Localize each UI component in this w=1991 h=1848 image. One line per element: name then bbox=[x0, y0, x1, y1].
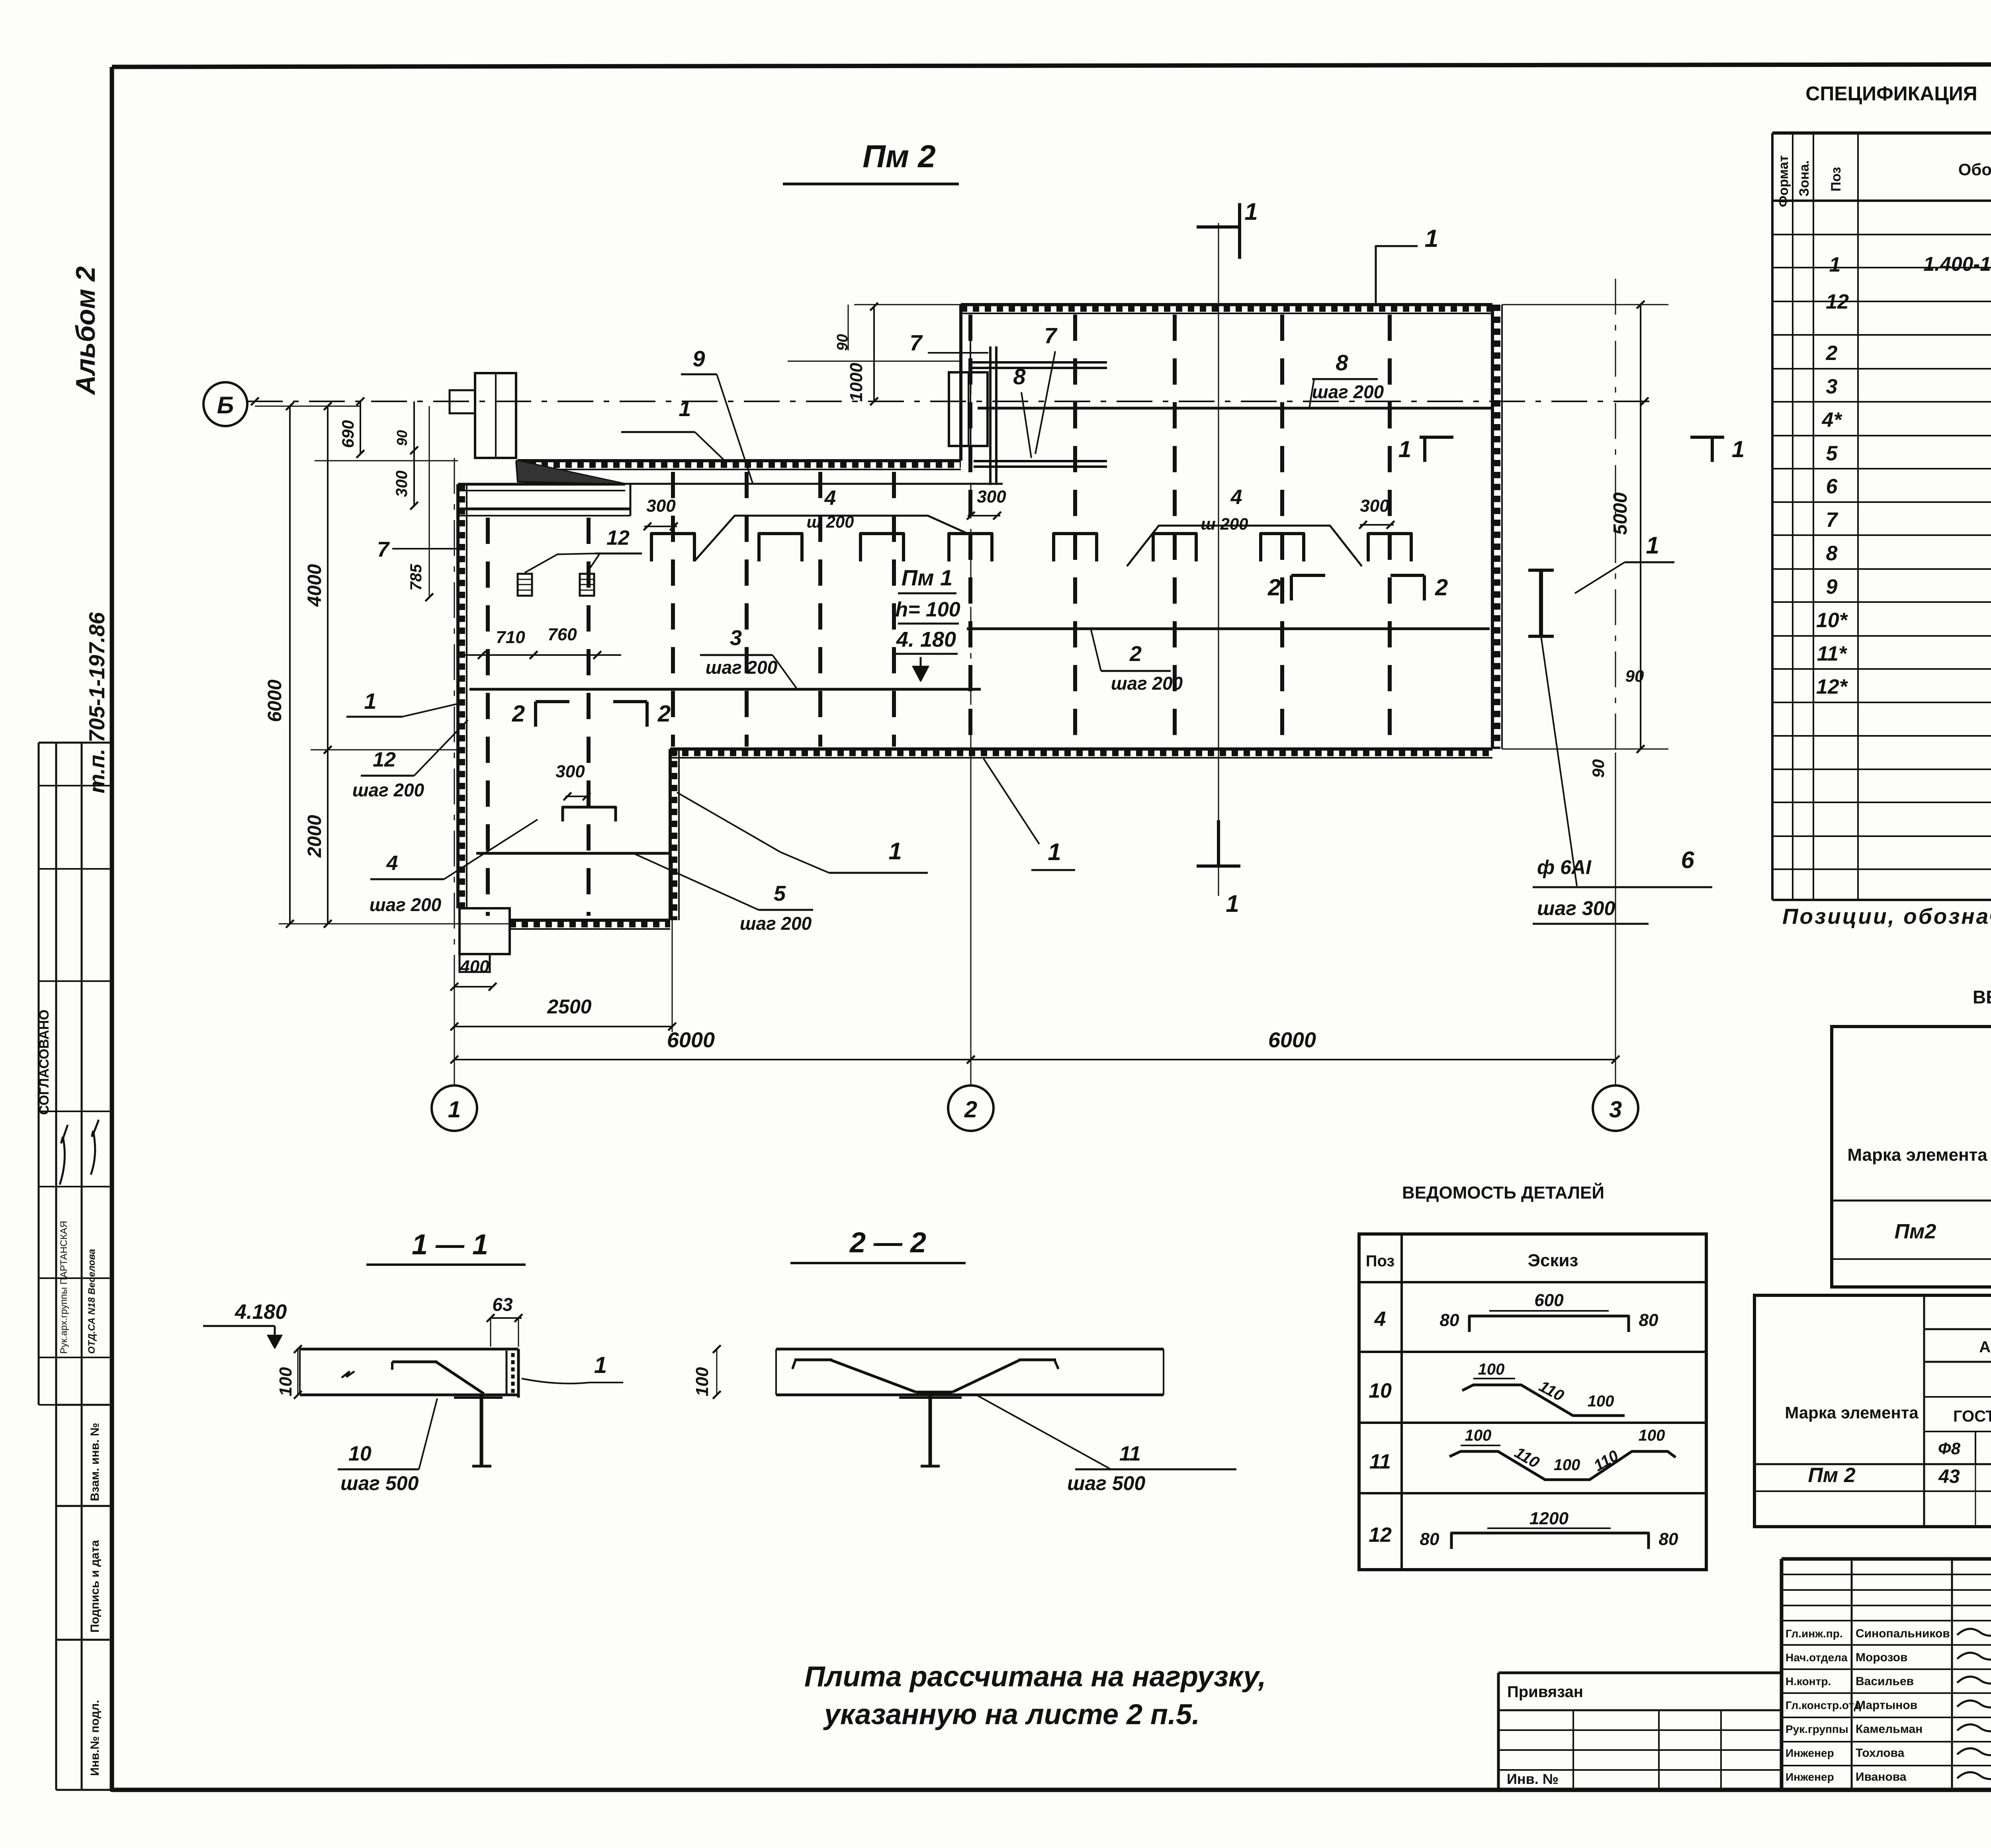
svg-text:Позиции, обозначенные знаком*,: Позиции, обозначенные знаком*, см. ведом… bbox=[1782, 904, 1991, 929]
svg-text:6000: 6000 bbox=[1268, 1028, 1316, 1052]
svg-text:2000: 2000 bbox=[304, 815, 325, 858]
svg-text:63: 63 bbox=[492, 1294, 513, 1315]
svg-text:Камельман: Камельман bbox=[1856, 1723, 1923, 1736]
svg-text:h= 100: h= 100 bbox=[895, 598, 960, 621]
svg-text:Гл.констр.отд: Гл.констр.отд bbox=[1786, 1699, 1861, 1711]
svg-text:1 — 1: 1 — 1 bbox=[412, 1229, 488, 1261]
svg-text:Инженер: Инженер bbox=[1786, 1747, 1834, 1759]
svg-text:6000: 6000 bbox=[667, 1028, 715, 1052]
svg-text:Нач.отдела: Нач.отдела bbox=[1786, 1651, 1848, 1664]
svg-text:4: 4 bbox=[1374, 1308, 1386, 1331]
svg-text:100: 100 bbox=[1465, 1427, 1492, 1444]
svg-text:10: 10 bbox=[348, 1442, 372, 1465]
svg-text:ф 6АI: ф 6АI bbox=[1537, 856, 1592, 878]
svg-text:600: 600 bbox=[1534, 1291, 1564, 1310]
svg-text:1: 1 bbox=[364, 688, 376, 714]
svg-text:90: 90 bbox=[1625, 667, 1644, 685]
svg-text:90: 90 bbox=[1589, 759, 1608, 778]
svg-text:шаг 200: шаг 200 bbox=[740, 913, 812, 934]
svg-text:Пм2: Пм2 bbox=[1895, 1220, 1936, 1243]
svg-text:10*: 10* bbox=[1816, 609, 1848, 632]
svg-text:ш 200: ш 200 bbox=[806, 512, 854, 531]
svg-text:12: 12 bbox=[1369, 1523, 1392, 1547]
svg-text:1200: 1200 bbox=[1529, 1509, 1569, 1528]
svg-text:Поз: Поз bbox=[1829, 167, 1844, 192]
svg-text:шаг 300: шаг 300 bbox=[1537, 897, 1615, 919]
svg-text:СПЕЦИФИКАЦИЯ: СПЕЦИФИКАЦИЯ bbox=[1805, 82, 1977, 105]
svg-text:Пм 2: Пм 2 bbox=[863, 139, 935, 174]
svg-text:шаг 500: шаг 500 bbox=[1067, 1472, 1145, 1494]
svg-text:1: 1 bbox=[1829, 253, 1841, 276]
svg-text:6: 6 bbox=[1826, 475, 1838, 498]
svg-text:1: 1 bbox=[594, 1352, 607, 1378]
svg-text:ОТД.СА N18 Веселова: ОТД.СА N18 Веселова bbox=[86, 1249, 97, 1354]
svg-text:Синопальников: Синопальников bbox=[1856, 1627, 1950, 1640]
svg-text:Рук.группы: Рук.группы bbox=[1786, 1723, 1848, 1735]
svg-text:300: 300 bbox=[555, 762, 585, 781]
svg-text:Пм 1: Пм 1 bbox=[902, 565, 952, 590]
svg-text:1: 1 bbox=[1226, 890, 1239, 917]
svg-text:80: 80 bbox=[1420, 1529, 1439, 1549]
svg-text:300: 300 bbox=[1360, 496, 1389, 516]
svg-text:100: 100 bbox=[1554, 1456, 1580, 1474]
svg-text:8: 8 bbox=[1013, 364, 1026, 389]
svg-text:43: 43 bbox=[1938, 1466, 1960, 1487]
svg-text:7: 7 bbox=[377, 538, 390, 561]
svg-text:шаг 200: шаг 200 bbox=[370, 894, 442, 915]
svg-text:9: 9 bbox=[1826, 575, 1838, 598]
svg-text:1: 1 bbox=[1244, 198, 1258, 225]
svg-text:Инв. №: Инв. № bbox=[1507, 1771, 1559, 1787]
svg-text:2: 2 bbox=[1129, 642, 1142, 666]
svg-text:1: 1 bbox=[448, 1097, 461, 1122]
svg-text:300: 300 bbox=[393, 471, 411, 497]
svg-text:СОГЛАСОВАНО: СОГЛАСОВАНО bbox=[37, 1009, 52, 1115]
svg-text:4: 4 bbox=[824, 487, 836, 510]
svg-text:Гл.инж.пр.: Гл.инж.пр. bbox=[1786, 1627, 1843, 1640]
svg-text:Мартынов: Мартынов bbox=[1856, 1699, 1917, 1712]
svg-text:11*: 11* bbox=[1817, 642, 1848, 665]
svg-text:ВЕДОМОСТЬ РАСХОДА СТАЛИ НА: ВЕДОМОСТЬ РАСХОДА СТАЛИ НА ЭЛЕМЕНТ, кг bbox=[1973, 987, 1991, 1007]
svg-text:2: 2 bbox=[512, 701, 525, 727]
svg-text:2: 2 bbox=[1826, 342, 1838, 365]
svg-text:2: 2 bbox=[1435, 575, 1448, 600]
svg-text:1: 1 bbox=[1732, 436, 1745, 462]
svg-text:4000: 4000 bbox=[304, 564, 325, 607]
svg-text:785: 785 bbox=[407, 564, 425, 591]
svg-text:Марка элемента: Марка элемента bbox=[1785, 1403, 1919, 1422]
svg-text:шаг 200: шаг 200 bbox=[1312, 381, 1384, 402]
svg-text:3: 3 bbox=[1609, 1097, 1622, 1122]
svg-text:Зона.: Зона. bbox=[1797, 160, 1812, 197]
svg-text:Формат: Формат bbox=[1776, 155, 1791, 207]
svg-text:Подпись и дата: Подпись и дата bbox=[88, 1540, 102, 1633]
svg-text:Иванова: Иванова bbox=[1856, 1770, 1907, 1783]
svg-text:100: 100 bbox=[1588, 1392, 1614, 1410]
svg-text:1: 1 bbox=[679, 396, 691, 421]
svg-text:Б: Б bbox=[217, 392, 234, 418]
svg-text:Плита рассчитана на нагрузк: Плита рассчитана на нагрузку, bbox=[804, 1661, 1266, 1693]
svg-text:400: 400 bbox=[460, 957, 489, 976]
svg-text:690: 690 bbox=[338, 420, 357, 448]
svg-text:1: 1 bbox=[1425, 225, 1438, 252]
svg-text:Рук.арх.группы ПАРТАНСКАЯ: Рук.арх.группы ПАРТАНСКАЯ bbox=[59, 1221, 69, 1354]
svg-text:Н.контр.: Н.контр. bbox=[1786, 1675, 1831, 1688]
svg-text:Васильев: Васильев bbox=[1856, 1675, 1914, 1688]
svg-text:7: 7 bbox=[909, 330, 923, 355]
svg-text:6: 6 bbox=[1681, 847, 1694, 873]
svg-text:1000: 1000 bbox=[847, 363, 866, 402]
svg-text:шаг 200: шаг 200 bbox=[706, 657, 778, 678]
svg-text:80: 80 bbox=[1659, 1529, 1678, 1549]
svg-text:т.п. 705-1-197.86: т.п. 705-1-197.86 bbox=[84, 612, 109, 793]
svg-text:Морозов: Морозов bbox=[1856, 1651, 1908, 1664]
svg-text:80: 80 bbox=[1440, 1310, 1459, 1330]
svg-text:12*: 12* bbox=[1816, 675, 1848, 698]
svg-text:3: 3 bbox=[1826, 375, 1838, 398]
svg-text:12: 12 bbox=[373, 748, 396, 771]
svg-text:Привязан: Привязан bbox=[1507, 1683, 1583, 1701]
svg-text:1: 1 bbox=[1646, 532, 1659, 559]
svg-text:1: 1 bbox=[1048, 839, 1061, 865]
svg-text:Тохлова: Тохлова bbox=[1856, 1746, 1905, 1760]
svg-text:11: 11 bbox=[1369, 1450, 1391, 1473]
svg-text:710: 710 bbox=[496, 628, 525, 647]
svg-text:Ф8: Ф8 bbox=[1938, 1439, 1961, 1458]
svg-text:12: 12 bbox=[606, 526, 630, 550]
svg-text:4*: 4* bbox=[1821, 409, 1842, 432]
svg-text:шаг 500: шаг 500 bbox=[340, 1472, 419, 1494]
svg-text:7: 7 bbox=[1044, 323, 1058, 348]
svg-text:Обозначение: Обозначение bbox=[1958, 160, 1991, 179]
svg-text:1: 1 bbox=[888, 838, 902, 864]
svg-text:2: 2 bbox=[1267, 575, 1281, 600]
svg-text:5: 5 bbox=[774, 882, 786, 905]
svg-text:5000: 5000 bbox=[1610, 492, 1631, 535]
svg-text:Поз: Поз bbox=[1366, 1252, 1395, 1270]
svg-text:100: 100 bbox=[1478, 1361, 1505, 1378]
svg-text:5: 5 bbox=[1826, 442, 1838, 465]
svg-text:Эскиз: Эскиз bbox=[1528, 1251, 1578, 1270]
svg-text:1: 1 bbox=[1398, 436, 1411, 462]
svg-text:4. 180: 4. 180 bbox=[896, 628, 956, 651]
svg-text:4: 4 bbox=[1230, 486, 1242, 509]
svg-text:300: 300 bbox=[646, 496, 676, 516]
svg-text:2: 2 bbox=[657, 701, 671, 727]
svg-text:760: 760 bbox=[548, 625, 577, 644]
svg-text:ш 200: ш 200 bbox=[1201, 514, 1248, 533]
svg-text:7: 7 bbox=[1826, 508, 1838, 532]
svg-text:3: 3 bbox=[730, 626, 742, 650]
svg-text:80: 80 bbox=[1639, 1310, 1659, 1330]
svg-text:Инженер: Инженер bbox=[1786, 1771, 1834, 1783]
svg-text:100: 100 bbox=[276, 1367, 295, 1396]
svg-text:9: 9 bbox=[692, 346, 705, 371]
svg-text:11: 11 bbox=[1119, 1442, 1141, 1465]
svg-text:Пм 2: Пм 2 bbox=[1808, 1464, 1855, 1487]
svg-text:100: 100 bbox=[692, 1367, 712, 1396]
svg-text:Взам. инв. №: Взам. инв. № bbox=[88, 1423, 102, 1501]
svg-text:указанную на листе 2 п.5.: указанную на листе 2 п.5. bbox=[823, 1699, 1200, 1731]
svg-text:Арматура класса: Арматура класса bbox=[1979, 1338, 1991, 1356]
svg-text:1.400-15 в.1 530сб: 1.400-15 в.1 530сб bbox=[1923, 253, 1991, 275]
svg-text:6000: 6000 bbox=[264, 679, 286, 722]
svg-text:ГОСТ: ГОСТ bbox=[1953, 1408, 1991, 1425]
svg-text:2 — 2: 2 — 2 bbox=[849, 1227, 926, 1259]
svg-text:шаг 200: шаг 200 bbox=[1111, 673, 1183, 694]
svg-text:4: 4 bbox=[386, 852, 398, 875]
svg-text:шаг 200: шаг 200 bbox=[352, 780, 424, 800]
svg-text:2500: 2500 bbox=[547, 995, 591, 1018]
svg-text:90: 90 bbox=[394, 430, 410, 446]
svg-text:Инв.№ подл.: Инв.№ подл. bbox=[88, 1700, 102, 1776]
svg-text:12: 12 bbox=[1826, 290, 1849, 313]
svg-text:8: 8 bbox=[1336, 350, 1348, 375]
svg-text:ВЕДОМОСТЬ ДЕТАЛЕЙ: ВЕДОМОСТЬ ДЕТАЛЕЙ bbox=[1402, 1182, 1604, 1203]
svg-text:Марка элемента: Марка элемента bbox=[1847, 1145, 1987, 1165]
svg-text:8: 8 bbox=[1826, 542, 1838, 565]
svg-text:4.180: 4.180 bbox=[235, 1300, 287, 1324]
svg-text:2: 2 bbox=[964, 1097, 977, 1122]
svg-text:10: 10 bbox=[1369, 1379, 1392, 1402]
svg-text:300: 300 bbox=[977, 487, 1006, 506]
svg-text:Альбом 2: Альбом 2 bbox=[70, 266, 101, 396]
svg-text:100: 100 bbox=[1639, 1427, 1665, 1444]
